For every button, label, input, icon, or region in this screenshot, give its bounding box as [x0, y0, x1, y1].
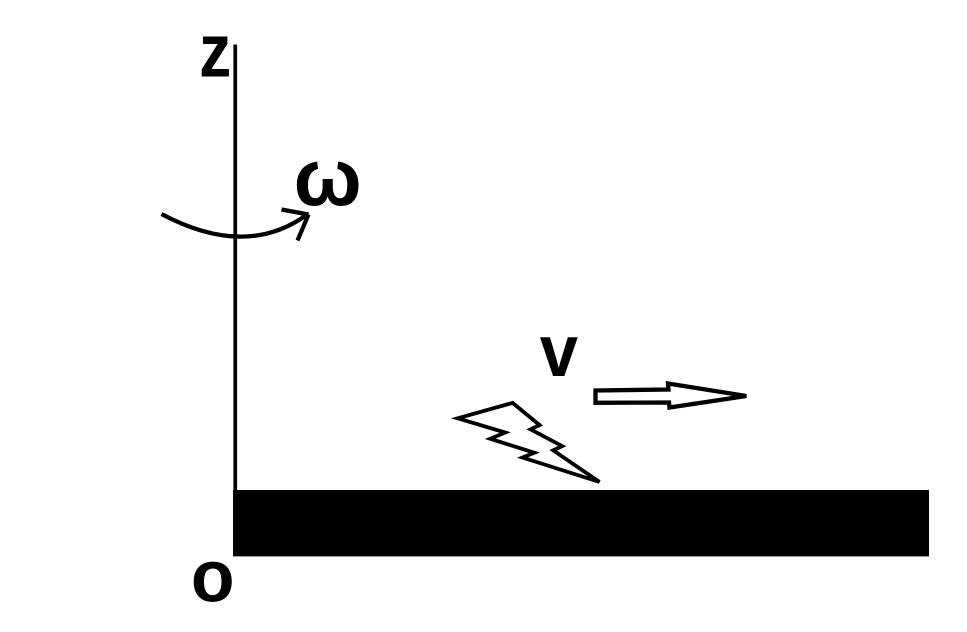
- svg-text:ω: ω: [294, 133, 362, 223]
- svg-text:o: o: [191, 535, 235, 617]
- svg-text:z: z: [199, 9, 231, 93]
- svg-text:v: v: [540, 311, 579, 392]
